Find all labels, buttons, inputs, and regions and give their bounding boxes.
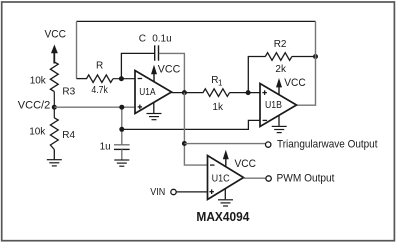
wire R2 right lead [292, 56, 316, 58]
svg-text:10k: 10k [30, 76, 47, 87]
node U1A output [182, 90, 187, 95]
resistor R 4.7k [87, 75, 114, 83]
op-amp U1C [208, 156, 244, 200]
wire U1A output down to U1C minus [184, 93, 208, 166]
pin plus U1C [209, 191, 214, 193]
wire top feedback rail [77, 20, 316, 22]
wire VCC/2 rail to U1A non-inverting input [54, 106, 135, 108]
svg-text:VIN: VIN [150, 187, 165, 198]
svg-text:R2: R2 [274, 39, 287, 50]
node R2 right junction [313, 54, 318, 59]
terminal PWM Output [266, 176, 271, 181]
wire R left lead [77, 78, 88, 80]
pin minus U1C [210, 164, 215, 166]
wire 1u bottom lead [121, 149, 123, 159]
svg-text:U1B: U1B [265, 100, 282, 111]
wire right drop from top rail to U1B output [297, 21, 316, 105]
svg-text:0.1u: 0.1u [152, 33, 171, 44]
svg-text:2k: 2k [275, 64, 287, 75]
wire U1C output [244, 177, 267, 179]
resistor R4 10k [50, 118, 58, 150]
capacitor C 0.1u [154, 45, 156, 60]
wire to triangular output terminal [184, 143, 265, 145]
wire R3 to VCC/2 node [53, 92, 55, 118]
node VCC/2 junction [52, 105, 57, 110]
VCC arrow U1C [223, 150, 229, 159]
pin plus U1B [262, 92, 267, 94]
svg-text:1k: 1k [212, 102, 224, 113]
pin plus U1A [138, 106, 143, 108]
VCC arrow U1B [276, 78, 282, 87]
op-amp U1B [260, 84, 297, 127]
svg-text:C: C [139, 33, 146, 44]
svg-text:VCC/2: VCC/2 [18, 100, 50, 112]
svg-text:MAX4094: MAX4094 [196, 210, 249, 224]
svg-text:VCC: VCC [235, 158, 257, 170]
VCC arrow top-left [51, 45, 58, 54]
svg-text:U1C: U1C [212, 174, 230, 185]
svg-text:U1A: U1A [139, 87, 155, 98]
wire left drop to R [76, 21, 78, 78]
wire R right lead to U1A inverting input [113, 78, 136, 80]
svg-text:PWM Output: PWM Output [277, 173, 335, 185]
terminal VIN [171, 189, 176, 194]
wire 1u cap branch from VCC/2 rail [121, 107, 123, 144]
wire R1 right lead to U1B plus [230, 92, 261, 94]
node R1/R2/U1B+ junction [246, 90, 251, 95]
VCC arrow U1A [151, 65, 157, 74]
resistor R2 2k [265, 53, 292, 61]
wire VIN to U1C plus [176, 191, 208, 193]
svg-text:VCC: VCC [284, 77, 306, 89]
wire R2 left drop [248, 57, 265, 93]
svg-text:VCC: VCC [158, 64, 181, 76]
node comparator-reference branch junction [119, 127, 124, 132]
ground (U1C) [224, 189, 226, 200]
svg-text:10k: 10k [29, 127, 46, 138]
pin minus U1B [263, 119, 268, 121]
svg-text:Triangularwave Output: Triangularwave Output [277, 138, 378, 150]
svg-text:1u: 1u [100, 141, 111, 152]
terminal Triangularwave Output [266, 142, 271, 147]
node triangular output branch [182, 141, 187, 146]
capacitor 1u [114, 144, 130, 146]
svg-text:R4: R4 [62, 130, 75, 141]
ground (R4) [47, 160, 62, 166]
pin minus U1A [138, 78, 143, 80]
svg-text:4.7k: 4.7k [91, 85, 108, 96]
svg-text:VCC: VCC [45, 28, 67, 40]
op-amp U1A [135, 71, 172, 114]
svg-text:R: R [96, 61, 103, 72]
ground (U1B) [278, 116, 280, 126]
svg-text:1: 1 [218, 79, 223, 88]
resistor R1 1k [203, 89, 230, 97]
wire VCC/2 to U1B inverting input with jog [122, 120, 261, 129]
node 1u top junction [119, 105, 124, 110]
ground (U1A) [153, 103, 155, 114]
wire R4 to ground [53, 150, 55, 160]
resistor R3 10k [50, 62, 58, 92]
wire capacitor right lead and drop to U1A output [159, 53, 185, 92]
svg-text:R3: R3 [62, 86, 75, 97]
ground (1u cap) [114, 160, 129, 166]
wire capacitor left drop [121, 53, 154, 78]
node U1A minus junction [119, 76, 124, 81]
wire U1A output row to U1B plus input [172, 92, 204, 94]
